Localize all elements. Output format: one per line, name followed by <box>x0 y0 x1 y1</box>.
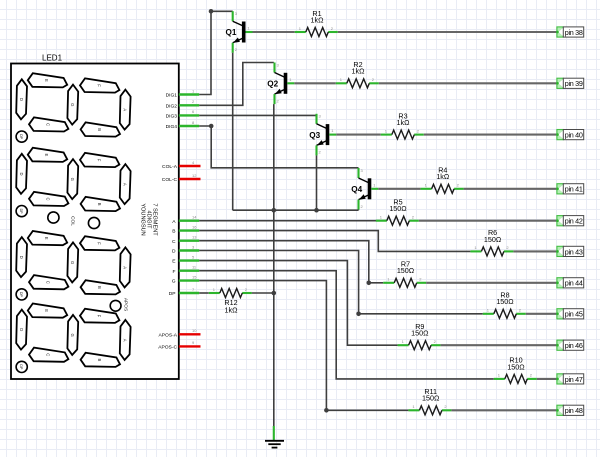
junction bus / ground wire <box>272 208 277 213</box>
wire Q4 emitter to common bus <box>358 209 360 212</box>
junction DIG4 wire bend <box>209 124 214 129</box>
LED1 pin APOS-A (unconnected, red) <box>159 328 201 338</box>
LED1 pin C <box>172 235 199 245</box>
svg-text:C: C <box>172 239 176 245</box>
svg-text:pin 48: pin 48 <box>565 406 583 415</box>
svg-text:1: 1 <box>373 182 376 187</box>
svg-text:2: 2 <box>444 404 447 409</box>
pin label flag pin 39 <box>556 78 584 88</box>
junction DIG1 wire bend <box>209 9 214 14</box>
svg-text:150Ω: 150Ω <box>422 394 440 403</box>
LED1 colon circles COL <box>48 212 100 229</box>
svg-text:DP: DP <box>169 291 176 297</box>
wire Q3 emitter to common bus <box>316 155 318 210</box>
svg-text:2: 2 <box>245 287 248 292</box>
svg-text:G: G <box>172 279 176 285</box>
transistor Q3 <box>309 114 336 156</box>
LED1 pin DIG4 <box>166 120 200 130</box>
svg-text:C: C <box>45 123 50 126</box>
svg-text:2: 2 <box>277 98 280 103</box>
wire R9 to pin 46 <box>441 344 557 346</box>
transistor Q2 <box>267 62 294 104</box>
svg-text:1: 1 <box>299 26 302 31</box>
svg-text:Q1: Q1 <box>225 28 236 37</box>
svg-text:A: A <box>122 266 127 269</box>
transistor Q4 <box>351 168 378 210</box>
wire segment D to R8 <box>199 251 483 314</box>
svg-text:B: B <box>172 229 175 235</box>
svg-text:12: 12 <box>192 173 197 178</box>
junction G wire bend <box>324 408 329 413</box>
svg-text:pin 38: pin 38 <box>565 28 583 37</box>
svg-text:pin 42: pin 42 <box>565 217 583 226</box>
pin label flag pin 45 <box>556 309 584 319</box>
svg-text:B: B <box>97 128 102 131</box>
wire DP to R12 <box>199 292 209 294</box>
svg-text:3: 3 <box>319 114 322 119</box>
LED1 pin A <box>172 215 199 225</box>
svg-text:3: 3 <box>192 244 195 249</box>
svg-text:1kΩ: 1kΩ <box>397 118 411 127</box>
svg-text:A: A <box>122 183 127 186</box>
LED1 pin DIG1 <box>166 88 200 98</box>
svg-text:C: C <box>45 281 50 284</box>
wire R2 base lead <box>294 82 336 84</box>
svg-text:APOS-C: APOS-C <box>158 345 177 351</box>
svg-text:pin 45: pin 45 <box>565 310 583 319</box>
svg-text:DIG4: DIG4 <box>166 124 178 130</box>
svg-text:2: 2 <box>361 204 364 209</box>
wire segment B to R6 <box>199 231 470 252</box>
svg-text:2: 2 <box>319 150 322 155</box>
wire common emitter bus <box>233 209 359 211</box>
LED1 digit 4 decimal point <box>16 361 27 372</box>
resistor R7 150Ω <box>383 260 426 288</box>
svg-text:E: E <box>44 154 49 157</box>
svg-text:DP: DP <box>19 364 23 370</box>
wire R5 to pin 42 <box>419 220 557 222</box>
wire R2 to pin 39 <box>379 82 557 84</box>
wire DIG4 to Q4 collector <box>199 126 358 168</box>
svg-text:APOS-A: APOS-A <box>159 332 178 338</box>
svg-text:1: 1 <box>385 128 388 133</box>
svg-text:2: 2 <box>331 26 334 31</box>
wire R3 base lead <box>336 134 381 136</box>
svg-text:13: 13 <box>192 235 197 240</box>
svg-text:4: 4 <box>192 160 195 165</box>
svg-text:B: B <box>97 203 102 206</box>
svg-text:DP: DP <box>19 292 23 298</box>
svg-text:1kΩ: 1kΩ <box>311 15 325 24</box>
svg-text:150Ω: 150Ω <box>507 362 525 371</box>
svg-text:G: G <box>70 333 75 336</box>
pin label flag pin 48 <box>556 405 584 415</box>
svg-text:B: B <box>97 286 102 289</box>
svg-text:A: A <box>122 339 127 342</box>
svg-text:D: D <box>19 172 24 175</box>
wire R1 to pin 38 <box>338 31 557 33</box>
wire R10 to pin 47 <box>537 378 557 380</box>
svg-text:F: F <box>96 242 101 245</box>
svg-text:pin 47: pin 47 <box>565 375 583 384</box>
7-segment display LED1 <box>11 54 179 380</box>
svg-text:DP: DP <box>19 209 23 215</box>
svg-text:1kΩ: 1kΩ <box>225 306 239 315</box>
svg-text:D: D <box>19 328 24 331</box>
wire bus to ground <box>273 210 275 426</box>
LED1 pin COL-A (unconnected, red) <box>162 160 200 170</box>
svg-text:pin 46: pin 46 <box>565 341 583 350</box>
wire R7 to pin 44 <box>426 282 557 284</box>
pin label flag pin 44 <box>556 278 584 288</box>
svg-text:1kΩ: 1kΩ <box>436 172 450 181</box>
svg-text:Q3: Q3 <box>309 131 320 140</box>
svg-text:150Ω: 150Ω <box>389 204 407 213</box>
svg-text:7: 7 <box>192 287 195 292</box>
resistor R10 150Ω <box>494 356 537 384</box>
svg-text:2: 2 <box>419 277 422 282</box>
svg-text:DIG1: DIG1 <box>166 93 178 99</box>
svg-text:2: 2 <box>530 373 533 378</box>
LED1 pin D <box>172 244 199 254</box>
svg-text:LED1: LED1 <box>42 54 63 63</box>
svg-text:pin 43: pin 43 <box>565 247 583 256</box>
svg-text:COL: COL <box>70 216 76 226</box>
svg-text:DIG3: DIG3 <box>166 114 178 120</box>
resistor R1 1kΩ <box>295 9 338 37</box>
resistor R9 150Ω <box>398 322 441 350</box>
svg-text:1: 1 <box>331 128 334 133</box>
LED1 digit 3 segments <box>16 231 130 294</box>
wire R1 base lead <box>253 31 295 33</box>
wire segment A to R5 <box>199 220 387 222</box>
LED1 pin COL-C (unconnected, red) <box>162 173 201 183</box>
svg-text:1: 1 <box>213 287 216 292</box>
svg-text:F: F <box>96 84 101 87</box>
wire segment E to R9 <box>199 261 397 346</box>
wire segment C to R7 <box>199 241 383 283</box>
LED1 digit 1 segments <box>16 73 130 136</box>
resistor R4 1kΩ <box>421 166 464 194</box>
svg-text:2: 2 <box>412 215 415 220</box>
pin label flag pin 38 <box>556 27 584 37</box>
svg-text:2: 2 <box>506 245 509 250</box>
svg-text:150Ω: 150Ω <box>397 266 415 275</box>
svg-text:E: E <box>44 79 49 82</box>
svg-text:1: 1 <box>387 277 390 282</box>
svg-text:1: 1 <box>425 183 428 188</box>
svg-text:D: D <box>172 249 176 255</box>
resistor R11 150Ω <box>408 387 451 415</box>
svg-text:DIG2: DIG2 <box>166 103 178 109</box>
resistor R6 150Ω <box>470 228 513 256</box>
junction D wire bend <box>356 312 361 317</box>
wire segment F to R10 <box>199 271 494 379</box>
pin label flag pin 40 <box>556 130 584 140</box>
svg-text:2: 2 <box>457 183 460 188</box>
svg-text:3: 3 <box>235 11 238 16</box>
LED1 pin E <box>172 254 199 264</box>
svg-text:1: 1 <box>247 26 250 31</box>
svg-text:1kΩ: 1kΩ <box>352 67 366 76</box>
svg-text:9: 9 <box>192 340 195 345</box>
svg-text:1: 1 <box>498 373 501 378</box>
svg-text:D: D <box>19 256 24 259</box>
resistor R2 1kΩ <box>336 60 379 88</box>
svg-text:1: 1 <box>412 404 415 409</box>
transistor Q1 <box>225 11 252 53</box>
pin label flag pin 47 <box>556 374 584 384</box>
svg-text:2: 2 <box>372 77 375 82</box>
junction R12 / ground wire <box>272 291 277 296</box>
LED1 pin DIG3 <box>166 109 200 119</box>
svg-text:1: 1 <box>192 88 195 93</box>
LED1 digit 2 segments <box>16 148 130 211</box>
LED1 pin F <box>173 265 200 275</box>
svg-text:pin 39: pin 39 <box>565 79 583 88</box>
svg-text:E: E <box>44 237 49 240</box>
wire R3 to pin 40 <box>424 134 557 136</box>
wire DIG1 to Q1 collector <box>199 11 233 94</box>
svg-text:C: C <box>45 197 50 200</box>
svg-text:pin 40: pin 40 <box>565 131 583 140</box>
svg-text:15: 15 <box>192 274 197 279</box>
svg-text:C: C <box>45 353 50 356</box>
LED1 digit 2 decimal point <box>16 206 27 217</box>
svg-text:5: 5 <box>192 254 195 259</box>
svg-text:6: 6 <box>192 109 195 114</box>
LED1 digit 1 decimal point <box>16 131 27 142</box>
svg-text:16: 16 <box>192 224 197 229</box>
wire R12 to ground wire <box>252 292 274 294</box>
svg-text:1: 1 <box>402 339 405 344</box>
svg-text:E: E <box>44 309 49 312</box>
resistor R12 1kΩ <box>209 287 252 315</box>
svg-text:2: 2 <box>235 47 238 52</box>
svg-text:pin 41: pin 41 <box>565 185 583 194</box>
svg-text:A: A <box>122 108 127 111</box>
svg-text:YOUNGSUN: YOUNGSUN <box>140 203 146 235</box>
svg-text:F: F <box>96 315 101 318</box>
svg-text:G: G <box>70 261 75 264</box>
svg-text:1: 1 <box>289 77 292 82</box>
svg-text:D: D <box>19 98 24 101</box>
svg-text:1: 1 <box>487 308 490 313</box>
svg-text:2: 2 <box>192 99 195 104</box>
svg-text:G: G <box>70 178 75 181</box>
wire segment G to R11 <box>199 281 408 411</box>
pin label flag pin 42 <box>556 216 584 226</box>
LED1 apostrophe circle APOS <box>110 298 128 311</box>
svg-text:Q4: Q4 <box>351 185 362 194</box>
LED1 pin G <box>172 274 200 284</box>
svg-text:10: 10 <box>192 328 197 333</box>
svg-text:COL-A: COL-A <box>162 164 178 170</box>
wire R6 to pin 43 <box>513 250 557 252</box>
resistor R8 150Ω <box>483 291 526 319</box>
resistor R5 150Ω <box>376 198 419 226</box>
svg-text:1: 1 <box>474 245 477 250</box>
junction C wire bend <box>367 281 372 286</box>
ground symbol <box>265 426 284 448</box>
svg-text:3: 3 <box>361 168 364 173</box>
svg-text:2: 2 <box>417 128 420 133</box>
svg-text:150Ω: 150Ω <box>484 235 502 244</box>
svg-text:14: 14 <box>192 215 197 220</box>
LED1 pin APOS-C (unconnected, red) <box>158 340 200 350</box>
svg-text:pin 44: pin 44 <box>565 279 583 288</box>
LED1 pin DP <box>169 287 199 297</box>
wire R4 base lead <box>378 188 420 190</box>
wire Q1 emitter to common bus <box>232 53 234 210</box>
wire R11 to pin 48 <box>451 409 557 411</box>
svg-text:2: 2 <box>519 308 522 313</box>
wire DIG3 to Q3 collector <box>199 114 316 116</box>
pin label flag pin 46 <box>556 340 584 350</box>
svg-text:DP: DP <box>19 134 23 140</box>
junction bus / Q3 emitter <box>314 208 319 213</box>
svg-text:1: 1 <box>380 215 383 220</box>
wire DIG2 to Q2 collector <box>199 63 274 106</box>
wire R8 to pin 45 <box>526 313 557 315</box>
svg-text:150Ω: 150Ω <box>411 329 429 338</box>
pin label flag pin 41 <box>556 184 584 194</box>
svg-text:B: B <box>97 359 102 362</box>
svg-text:APOS: APOS <box>122 298 128 311</box>
LED1 pin DIG2 <box>166 99 200 109</box>
wire R4 to pin 41 <box>464 188 557 190</box>
svg-text:2: 2 <box>434 339 437 344</box>
svg-text:8: 8 <box>192 120 195 125</box>
pin label flag pin 43 <box>556 246 584 256</box>
LED1 digit 4 segments <box>16 304 130 367</box>
svg-text:F: F <box>96 159 101 162</box>
LED1 pin B <box>172 224 199 234</box>
svg-text:F: F <box>173 269 176 275</box>
svg-text:1: 1 <box>340 77 343 82</box>
svg-text:G: G <box>70 103 75 106</box>
svg-text:150Ω: 150Ω <box>496 297 514 306</box>
svg-text:3: 3 <box>277 62 280 67</box>
LED1 part title text <box>140 203 158 236</box>
LED1 digit 3 decimal point <box>16 289 27 300</box>
svg-text:Q2: Q2 <box>267 80 278 89</box>
wire Q2 emitter to common bus <box>273 104 275 210</box>
svg-text:11: 11 <box>192 265 197 270</box>
resistor R3 1kΩ <box>381 111 424 139</box>
svg-text:COL-C: COL-C <box>162 177 178 183</box>
